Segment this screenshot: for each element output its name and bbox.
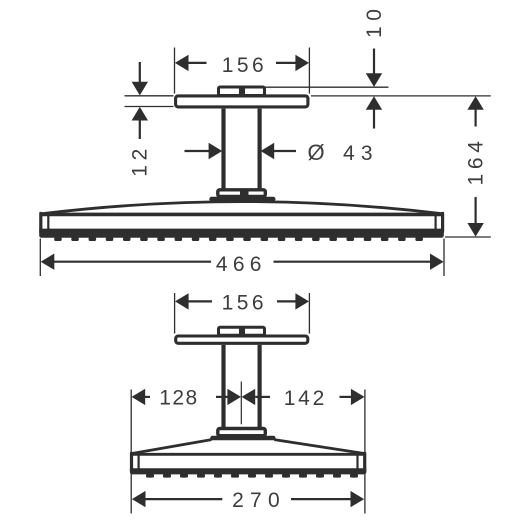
svg-text:156: 156 <box>222 292 264 315</box>
dim 142 line and arrows <box>242 389 365 405</box>
head shoulder line (fig1) <box>42 213 443 217</box>
head top curved surface (fig1) <box>41 202 442 214</box>
flange lower slab (fig1) <box>209 197 275 202</box>
dim 270 line and arrows <box>132 491 364 507</box>
dim 156 extension line right (fig1) <box>308 48 310 94</box>
flange center notch (fig1) <box>240 190 249 197</box>
dim 43 right arrow <box>261 143 296 159</box>
dim 128/142 extension line left <box>130 390 132 514</box>
svg-text:466: 466 <box>216 253 262 276</box>
dim 128 line and arrows <box>132 389 241 405</box>
svg-text:128: 128 <box>159 387 197 410</box>
head shoulder line (fig2) <box>132 453 364 456</box>
svg-text:156: 156 <box>222 54 264 77</box>
ceiling plate (fig2) <box>176 336 308 343</box>
spray nozzle teeth (fig1) <box>54 237 423 241</box>
head sloped top right (fig2) <box>274 440 364 454</box>
pipe left wall (fig2) <box>221 345 225 428</box>
ceiling connector box (fig2) <box>219 327 265 335</box>
dim 12 upper arrow <box>132 62 148 95</box>
pipe centerline (fig2) <box>240 382 242 425</box>
head right inner line (fig2) <box>356 456 358 470</box>
spray face band (fig2) <box>130 468 366 474</box>
connector center notch (fig2) <box>239 326 245 335</box>
svg-text:164: 164 <box>464 141 487 186</box>
head sloped top left (fig2) <box>132 440 212 454</box>
spray face band (fig1) <box>39 229 444 238</box>
dim 128/142 extension line right <box>364 390 366 514</box>
head left inner line (fig1) <box>47 216 49 230</box>
dim 10 upper arrow <box>366 49 382 87</box>
plate top extension line to the right (shared 10/164) <box>311 95 491 97</box>
pipe right wall (fig1) <box>258 109 262 189</box>
ceiling connector box (fig1) <box>219 87 265 96</box>
dim 156 extension line right (fig2) <box>308 293 310 334</box>
pipe right wall (fig2) <box>258 345 262 428</box>
dim 12 tick line lower <box>125 106 174 108</box>
dim 12 tick line upper <box>125 95 174 97</box>
head right edge (fig1) <box>441 213 444 231</box>
spray nozzle teeth (fig2) <box>146 474 358 478</box>
head left edge (fig2) <box>130 453 133 471</box>
pipe left wall (fig1) <box>221 109 225 189</box>
dim 43 left arrow <box>185 143 223 159</box>
dim 466 extension line left <box>39 239 41 277</box>
dim 156 extension line left (fig1) <box>174 48 176 94</box>
head left inner line (fig2) <box>138 456 140 470</box>
head left edge (fig1) <box>39 213 42 231</box>
dim 10 lower arrow <box>366 96 382 128</box>
svg-text:142: 142 <box>284 387 325 410</box>
flange lower slab (fig2) <box>210 436 275 441</box>
dim 164 bottom extension line <box>445 236 491 238</box>
dim 466 line and arrows <box>41 254 444 270</box>
svg-text:Ø: Ø <box>308 140 325 165</box>
dim 156 extension line left (fig2) <box>174 293 176 334</box>
connector center notch (fig1) <box>239 86 245 95</box>
ceiling plate (fig1) <box>176 96 308 107</box>
dim 156 line and arrows (fig2) <box>175 293 309 309</box>
dim 164 upper arrow <box>467 96 483 126</box>
dim 10 tick line from connector top <box>264 86 389 88</box>
head right edge (fig2) <box>363 453 366 471</box>
dim 466 extension line right <box>443 239 445 277</box>
head right inner line (fig1) <box>435 216 437 230</box>
flange upper step (fig1) <box>218 190 265 197</box>
dim 156 line and arrows (fig1) <box>175 55 309 71</box>
flange upper step (fig2) <box>218 429 265 436</box>
dim 12 lower arrow <box>132 107 148 139</box>
svg-text:270: 270 <box>232 489 280 512</box>
dim 164 lower arrow <box>467 197 483 237</box>
